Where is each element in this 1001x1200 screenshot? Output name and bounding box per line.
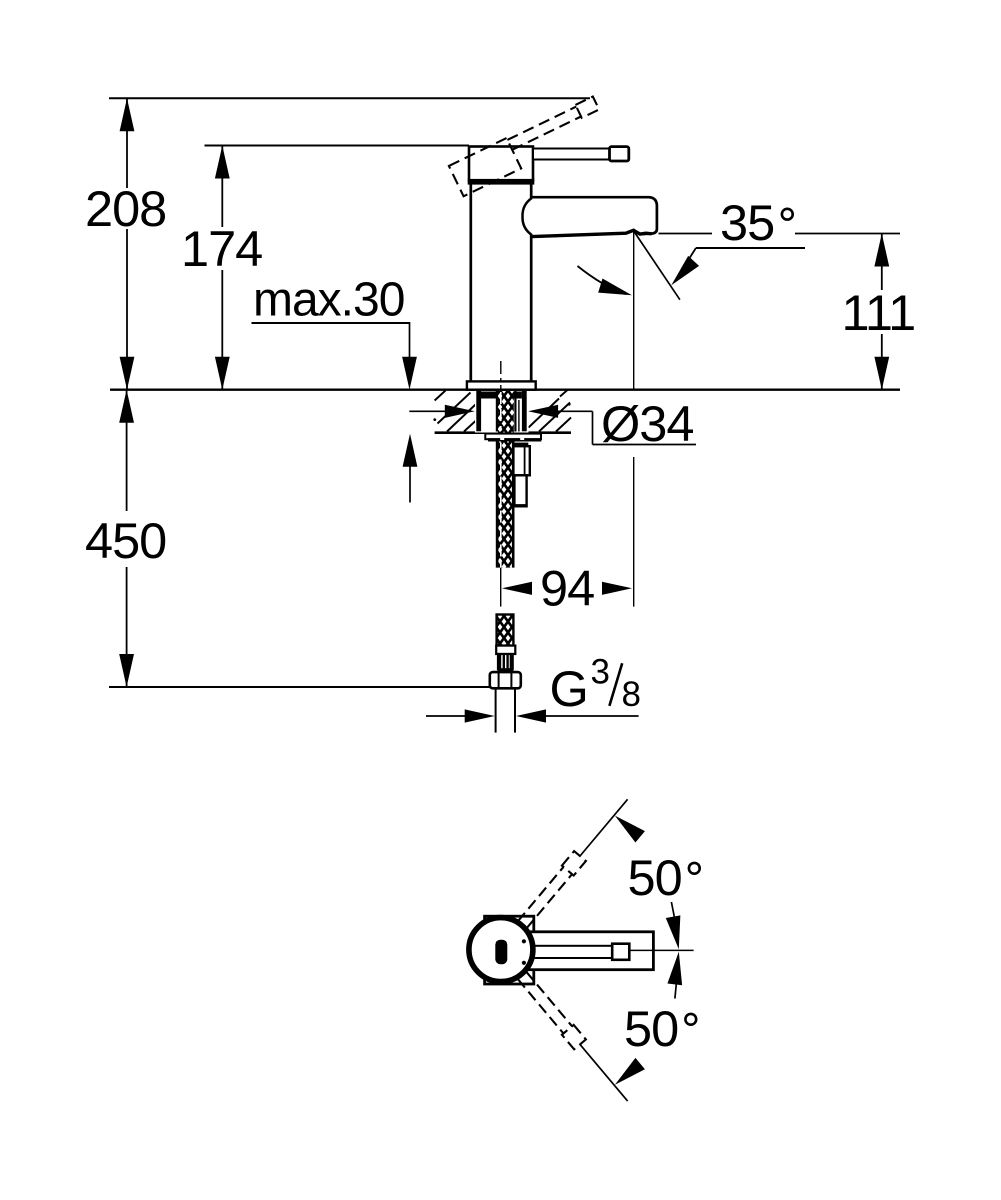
lever end cap	[610, 147, 629, 161]
plan centerline	[629, 949, 693, 951]
svg-text:50: 50	[628, 849, 682, 906]
spout underside heavy edge	[532, 230, 652, 236]
50 down reference line	[580, 1044, 628, 1101]
screw dot upper	[522, 939, 526, 943]
svg-text:208: 208	[85, 180, 166, 237]
dimension 111 line	[874, 234, 889, 390]
label G 3/8	[550, 653, 641, 718]
mounting washer	[485, 434, 541, 440]
stud upper body	[513, 446, 529, 475]
dimension 450 line	[119, 390, 134, 687]
lever rod end cap (top view)	[612, 944, 629, 960]
shank top band left	[481, 392, 497, 399]
hex nut	[490, 672, 521, 688]
deck hatching left	[435, 391, 476, 432]
50 up arc arrowhead	[610, 810, 645, 843]
svg-text:max.30: max.30	[253, 274, 404, 327]
svg-text:3: 3	[591, 653, 610, 692]
50 down arc arrowhead	[610, 1058, 645, 1091]
faucet body circle (top view)	[469, 918, 533, 982]
deck hatching right	[529, 390, 572, 432]
svg-text:G: G	[550, 660, 589, 717]
shank inner wall left	[496, 391, 498, 432]
dimension O34 leader	[409, 405, 696, 445]
50 up arrow at centerline	[666, 915, 686, 950]
35deg arrow onto slope line	[688, 248, 696, 261]
max.30 leader underline	[252, 322, 411, 324]
cartridge head	[469, 147, 533, 181]
svg-text:450: 450	[85, 512, 166, 569]
max.30 leader vertical with arrow to deck top	[409, 323, 411, 370]
outlet centerline down to 94 dimension	[633, 231, 635, 391]
stud lower body	[514, 475, 526, 506]
50 down arrow at centerline	[667, 951, 686, 986]
extension line bottom of 450	[109, 686, 490, 688]
screw dot lower	[522, 961, 526, 965]
faucet vertical centerline above deck	[500, 361, 502, 390]
svg-text:50: 50	[624, 1000, 678, 1057]
lever base plate (square behind circle)	[485, 916, 534, 984]
extension line top (208 reference at lever tip)	[109, 97, 590, 99]
35deg leader horizontal	[696, 247, 805, 249]
dimension 94 arrows	[502, 582, 532, 595]
faucet column right edge lower	[530, 235, 533, 383]
spout outline	[532, 197, 657, 236]
dashed lever at 50 down	[518, 972, 586, 1049]
svg-text:35: 35	[720, 194, 774, 251]
hose collar	[496, 646, 515, 654]
braided hose lower piece	[497, 615, 514, 646]
spout outlet height reference line (111 top)	[659, 233, 713, 235]
washer bottom notch left	[500, 437, 504, 440]
deck bottom line	[435, 431, 571, 434]
lever paddle outline (top view)	[526, 932, 653, 970]
G3/8 tube dimension	[426, 709, 639, 722]
svg-text:94: 94	[540, 560, 594, 617]
faucet column right edge upper	[530, 183, 533, 199]
dashed lever at 50 up	[518, 851, 586, 928]
stud bottom heavy edge	[514, 504, 528, 507]
hatch stray dots	[433, 418, 436, 421]
spout root transition curve	[522, 198, 531, 235]
braided hose inside shank	[498, 391, 514, 433]
50 down leader to centerline	[675, 968, 678, 999]
connection tube walls	[496, 688, 515, 732]
35deg slope line from outlet	[634, 231, 680, 300]
stud cap band	[513, 443, 529, 447]
shank white background	[475, 391, 529, 433]
washer bottom notch right	[520, 437, 524, 440]
dashed lever in raised position	[449, 96, 608, 196]
50 up leader to centerline	[671, 902, 677, 933]
base flange	[467, 381, 536, 389]
washer heavy bottom edge	[488, 438, 541, 441]
hose centerline white dashes over braid	[500, 392, 502, 431]
svg-text:8: 8	[622, 675, 641, 714]
shank top band right	[514, 392, 522, 399]
cartridge head heavy bottom band	[468, 179, 535, 185]
shank right wall	[522, 391, 527, 431]
faucet column left edge	[469, 183, 472, 382]
svg-text:Ø34: Ø34	[601, 395, 693, 452]
cartridge stem slot	[495, 940, 507, 965]
shank inner thin line right	[518, 400, 520, 432]
shank inner wall right	[514, 391, 516, 432]
svg-text:111: 111	[842, 284, 916, 341]
dimension 174 line	[215, 146, 230, 390]
stud inner line	[524, 446, 526, 475]
svg-text:174: 174	[181, 220, 262, 277]
countertop deck line	[110, 389, 900, 391]
dimension 94 left extension (faucet axis)	[500, 568, 502, 607]
max.30 lower arrow to deck bottom	[409, 460, 411, 503]
dimension 208 line	[120, 98, 135, 389]
braided hose below washer	[496, 442, 515, 568]
lever rod (top view)	[528, 946, 612, 958]
50 up reference line	[580, 799, 628, 856]
swivel arc arrow under spout	[578, 266, 627, 294]
lever rod (horizontal position)	[533, 149, 610, 160]
crimp ferrule with ridges	[498, 654, 513, 672]
extension line 174 (head top reference)	[205, 145, 470, 147]
shank left wall	[476, 391, 481, 431]
